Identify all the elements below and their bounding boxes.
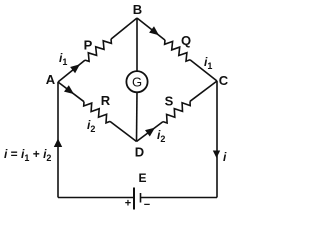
svg-text:i2: i2 [87, 118, 95, 134]
resistor S [163, 101, 190, 123]
current arrow i2 on D-S branch [145, 128, 155, 137]
svg-text:+: + [125, 198, 131, 210]
svg-text:i1: i1 [59, 51, 67, 67]
current arrow i on left wire (up) [54, 139, 62, 148]
wire R to D [110, 121, 137, 141]
svg-text:B: B [133, 2, 142, 17]
current arrow i on right wire (down) [213, 151, 220, 159]
wire bottom left to battery [58, 197, 134, 199]
svg-text:C: C [219, 73, 229, 88]
galvanometer G [126, 71, 147, 92]
svg-text:E: E [138, 171, 146, 185]
wire battery to bottom right [141, 197, 218, 199]
wire B-C upper segment [137, 18, 165, 40]
battery E negative plate [140, 193, 142, 203]
wire right side up to C [216, 81, 218, 198]
svg-text:S: S [165, 94, 174, 109]
wire P to B [111, 18, 137, 39]
wire Q to C [190, 60, 217, 81]
wire B to galvanometer [136, 18, 138, 71]
wire S to C [190, 81, 217, 101]
wire A down left side [57, 82, 59, 198]
resistor R [84, 102, 110, 123]
wire A-B upper segment [58, 60, 85, 82]
svg-text:−: − [144, 199, 150, 211]
wire galvanometer to D [136, 92, 139, 141]
wire D-S segment [137, 122, 164, 142]
svg-text:P: P [84, 38, 93, 53]
svg-text:i2: i2 [157, 128, 165, 144]
svg-text:i1: i1 [204, 55, 212, 71]
svg-text:i = i1 + i2: i = i1 + i2 [4, 147, 51, 163]
svg-text:i: i [223, 150, 227, 164]
svg-text:A: A [46, 72, 56, 87]
current arrow i1 on A-P branch [70, 64, 80, 73]
svg-text:Q: Q [181, 33, 191, 48]
svg-text:R: R [101, 93, 111, 108]
current arrow i1 on B-Q branch [149, 26, 159, 35]
resistor P [85, 39, 111, 61]
battery E positive plate [133, 188, 135, 210]
wire A-D segment [58, 82, 84, 102]
resistor Q [165, 40, 190, 61]
svg-text:G: G [132, 75, 142, 90]
svg-text:D: D [135, 145, 144, 160]
current arrow i2 on A-R branch [64, 85, 74, 94]
